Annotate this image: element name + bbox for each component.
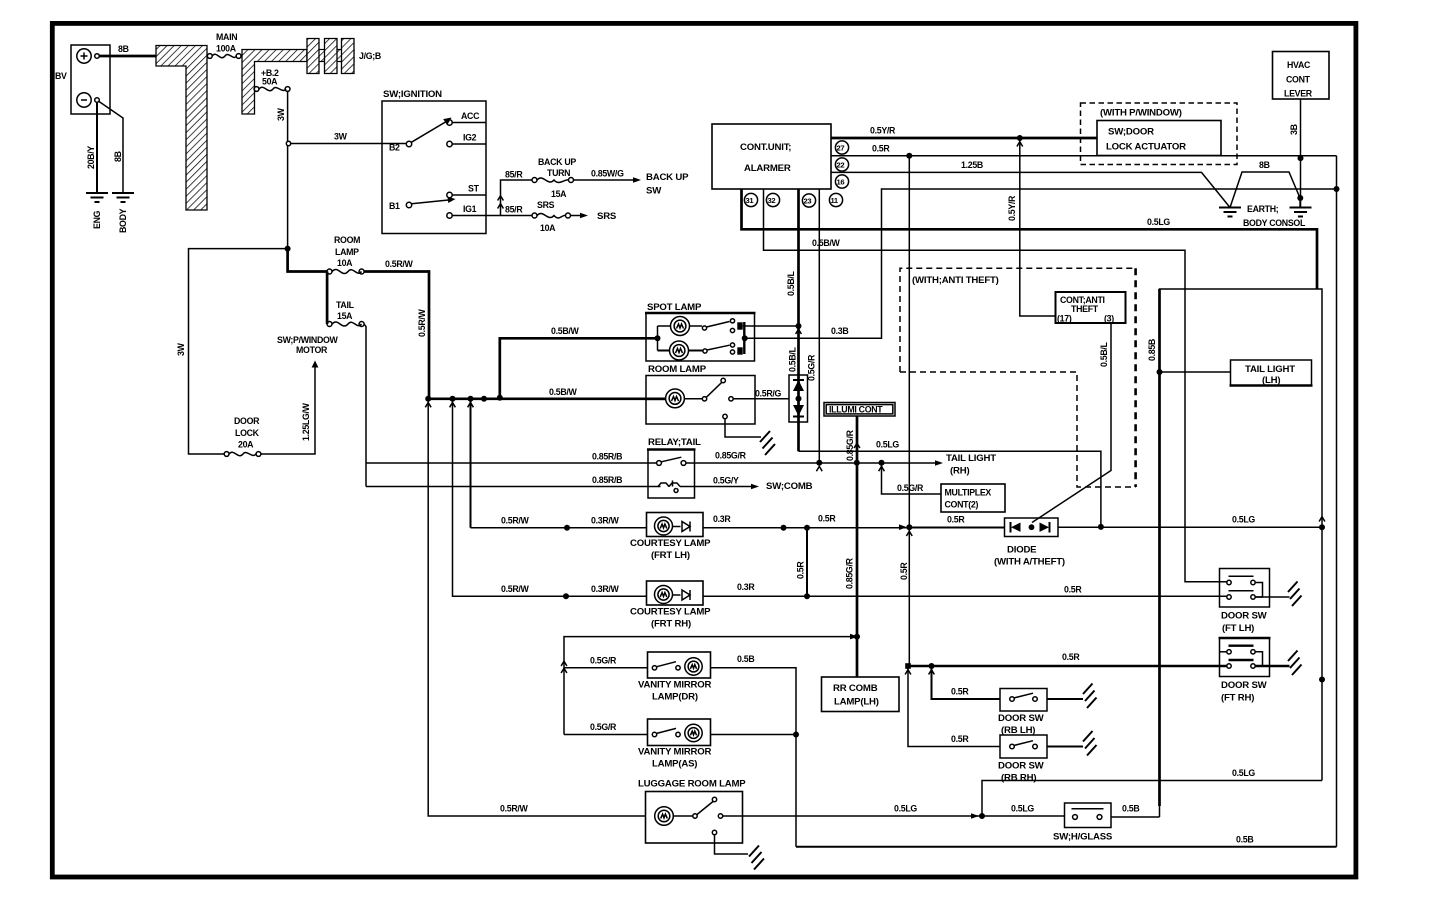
svg-text:0.5B/W: 0.5B/W [812,238,841,248]
svg-text:LAMP(LH): LAMP(LH) [834,697,879,708]
pin 27 [835,141,848,154]
svg-text:0.85G/R: 0.85G/R [845,557,855,589]
switch DOOR SW (FT LH) [1220,569,1290,635]
wire 0.5R link courtesy [806,528,808,597]
svg-text:BODY: BODY [118,208,128,233]
wire node 0.5B/W distribution [428,397,666,400]
svg-text:(WITH;ANTI THEFT): (WITH;ANTI THEFT) [912,275,999,286]
diode assembly DIODE WITH A/THEFT [994,518,1065,568]
node 0.5R / 909 branch [906,153,912,159]
svg-text:0.85R/B: 0.85R/B [592,452,622,462]
box SW;DOOR LOCK ACTUATOR [1097,121,1221,156]
svg-text:0.5LG: 0.5LG [876,440,899,450]
svg-text:LOCK: LOCK [235,428,260,438]
pin 23 [802,194,815,207]
svg-text:0.85W/G: 0.85W/G [591,169,624,179]
wire 0.5R thick to ft rh [908,665,1227,667]
ground earth2 body consol [1290,198,1312,217]
svg-text:0.5R/W: 0.5R/W [417,308,427,337]
svg-text:ACC: ACC [461,111,480,121]
pin 32 [766,193,779,206]
svg-text:3W: 3W [334,132,348,142]
svg-text:B2: B2 [389,143,400,153]
lamp spot 1 [658,325,671,327]
svg-text:0.5LG: 0.5LG [1147,217,1170,227]
node main 3W junction [285,246,291,252]
wire 3W drop from +B.2 to ignition [287,91,289,141]
pin 11 [829,193,842,206]
svg-text:0.5LG: 0.5LG [1232,768,1255,778]
lamp assembly ROOM LAMP [646,364,789,424]
svg-text:RR COMB: RR COMB [833,683,878,694]
svg-text:0.3R/W: 0.3R/W [591,516,620,526]
wire 0.5LG diode out [1058,526,1322,528]
svg-text:0.5LG: 0.5LG [894,804,917,814]
svg-text:3W: 3W [276,107,286,121]
wire 0.85G/R line B relay to tail light RH [694,462,936,464]
svg-text:LUGGAGE ROOM LAMP: LUGGAGE ROOM LAMP [638,779,746,790]
svg-text:TAIL LIGHT: TAIL LIGHT [1245,364,1295,375]
fusible link block MAIN [156,32,237,210]
svg-text:(FT LH): (FT LH) [1222,623,1254,634]
wire IG1 out [452,215,532,217]
svg-text:31: 31 [746,196,755,205]
switch DOOR SW (RB RH) [908,666,1083,784]
fuse BACK UP TURN 15A [532,157,576,199]
svg-text:ALARMER: ALARMER [744,163,791,174]
wire 0.85B vertical [1160,289,1323,817]
wire 0.5R down right side [1336,156,1338,847]
svg-text:0.5G/R: 0.5G/R [897,483,924,493]
svg-text:(WITH A/THEFT): (WITH A/THEFT) [994,557,1065,568]
lamp assembly LUGGAGE ROOM LAMP [428,399,746,843]
lamp assembly COURTESY LAMP FRT LH [471,399,712,561]
svg-text:COURTESY LAMP: COURTESY LAMP [630,538,711,549]
lamp spot 2 [658,350,670,352]
wire 3B from HVAC [1300,99,1302,198]
node riser frt rh [450,396,456,402]
svg-text:DIODE: DIODE [1007,545,1037,556]
svg-text:0.5R/W: 0.5R/W [385,259,414,269]
svg-text:0.5R/G: 0.5R/G [755,389,782,399]
svg-text:10A: 10A [540,223,556,233]
node tail light LH [1157,369,1163,375]
ground earth1 body consol [1219,208,1241,217]
wire 0.5LG top right drop [1316,229,1318,289]
svg-text:MULTIPLEX: MULTIPLEX [945,488,992,498]
svg-text:MOTOR: MOTOR [296,345,328,355]
svg-text:0.5R: 0.5R [947,515,965,525]
svg-text:0.5R: 0.5R [951,734,969,744]
svg-text:0.5B/W: 0.5B/W [549,387,578,397]
svg-text:DOOR SW: DOOR SW [998,713,1045,724]
wire 0.5G/Y to SW;COMB [694,486,752,488]
ground BODY [99,102,134,234]
dashed box WITH;ANTI THEFT [900,268,1136,487]
svg-text:0.5G/Y: 0.5G/Y [713,476,739,486]
svg-text:SW;H/GLASS: SW;H/GLASS [1053,832,1113,843]
node 0.3B end [1334,186,1340,192]
svg-text:BV: BV [55,71,67,81]
wire 0.5G/R to multiplex [882,463,942,494]
switch SW;H/GLASS [1053,803,1113,843]
svg-text:0.85G/R: 0.85G/R [715,451,747,461]
wire 0.5B vanity dr out [711,668,797,847]
wire 0.3R courtesy rh to door sw ft lh [703,595,1227,597]
svg-text:16: 16 [837,178,845,187]
svg-text:ENG: ENG [92,210,102,229]
svg-text:23: 23 [804,197,812,206]
battery BV [55,45,110,114]
box ILLUMI CONT [824,403,895,417]
ground ENG [86,103,108,230]
svg-text:VANITY MIRROR: VANITY MIRROR [638,680,712,691]
fuse TAIL 15A [327,300,364,327]
svg-text:0.5R/W: 0.5R/W [501,516,530,526]
wire 8B jumper earth1 to earth2 [1230,172,1300,208]
svg-text:BACK UP: BACK UP [646,172,689,183]
wire 0.5B h/glass to 0.85B [1111,816,1160,818]
svg-text:0.5R: 0.5R [1064,585,1082,595]
svg-text:DOOR SW: DOOR SW [998,761,1045,772]
node line B bus2 [816,460,822,466]
svg-text:15A: 15A [551,189,567,199]
svg-text:(FT RH): (FT RH) [1221,693,1254,704]
svg-text:0.3R: 0.3R [737,582,755,592]
svg-text:0.5R: 0.5R [872,144,890,154]
wire 0.3R courtesy lh out [703,527,1005,529]
svg-text:8B: 8B [1259,160,1270,170]
svg-text:CONT: CONT [1286,75,1311,85]
switch SW;IGNITION [382,89,486,234]
svg-text:20B/Y: 20B/Y [86,146,96,169]
wire 0.5B/W pin32 to door sw FT LH [764,189,1227,582]
node riser frt lh [468,396,474,402]
svg-text:15A: 15A [337,311,353,321]
svg-text:DOOR SW: DOOR SW [1221,680,1268,691]
wire 0.85W/G to back up sw [574,179,635,181]
wire 85/R branch up [501,180,533,216]
ground room lamp [760,431,775,455]
node 0.85B mystery [1319,677,1325,683]
lamp room [646,397,666,400]
svg-text:0.5R: 0.5R [951,687,969,697]
fusible link MAIN 100A [207,54,241,59]
fuse ROOM LAMP 10A [327,235,364,274]
svg-text:(RH): (RH) [950,466,969,477]
svg-text:IG2: IG2 [463,133,477,143]
fusible link block +B.2 [242,50,307,115]
wire luggage ground [715,835,749,854]
svg-text:0.5R/W: 0.5R/W [500,804,529,814]
svg-text:TAIL: TAIL [336,300,355,310]
pin 22 [835,158,848,171]
fusible link +B.2 50A [254,87,290,92]
svg-text:0.3R: 0.3R [713,514,731,524]
svg-text:ST: ST [468,184,480,194]
svg-text:0.5B/W: 0.5B/W [551,326,580,336]
wire 0.5R pin22 across top [831,155,1337,157]
svg-text:B1: B1 [389,201,400,211]
svg-text:0.5B: 0.5B [1122,804,1139,814]
wire 1.25LG/W to SW P/WINDOW MOTOR [261,335,339,454]
node riser luggage [425,396,431,402]
svg-text:0.5R: 0.5R [899,562,909,580]
wire vanity feed [564,637,851,735]
wire 0.5R to diode [911,526,1005,528]
svg-text:1.25B: 1.25B [961,160,983,170]
wire 8B battery to main link [100,55,157,58]
svg-text:BACK UP: BACK UP [538,157,576,167]
svg-text:10A: 10A [337,258,353,268]
wire 0.5R pin22 vertical [908,156,910,666]
lamp assembly COURTESY LAMP FRT RH [453,399,712,630]
svg-text:0.3B: 0.3B [831,326,848,336]
lamp assembly VANITY MIRROR LAMP(AS) [564,719,712,770]
svg-text:(FRT RH): (FRT RH) [651,619,691,630]
svg-text:ROOM LAMP: ROOM LAMP [648,364,707,375]
fuse DOOR LOCK 20A [224,416,261,456]
ground luggage [749,846,764,870]
svg-text:ROOM: ROOM [334,235,360,245]
wire 0.3B [745,189,1334,338]
svg-text:SW;DOOR: SW;DOOR [1108,127,1154,138]
svg-text:LAMP(DR): LAMP(DR) [652,692,698,703]
svg-text:DOOR: DOOR [234,416,260,426]
node bus1 spot [796,323,802,329]
svg-text:32: 32 [768,196,776,205]
svg-text:RELAY;TAIL: RELAY;TAIL [648,437,701,448]
svg-text:(17): (17) [1057,314,1072,324]
svg-text:SRS: SRS [597,211,617,222]
svg-text:SW;P/WINDOW: SW;P/WINDOW [277,335,339,345]
wire 0.5LG line A [799,451,1101,526]
lamp assembly VANITY MIRROR LAMP(DR) [564,652,712,703]
node HVAC junction [1298,155,1304,161]
box HVAC CONT LEVER [1273,52,1330,100]
svg-text:SW;COMB: SW;COMB [766,481,813,492]
svg-text:85/R: 85/R [505,205,523,215]
svg-text:27: 27 [837,144,845,153]
svg-text:(FRT LH): (FRT LH) [651,550,690,561]
bar spot switch common [743,322,745,354]
svg-text:LAMP: LAMP [335,247,359,257]
svg-text:SW;IGNITION: SW;IGNITION [383,89,442,100]
svg-text:LEVER: LEVER [1284,89,1313,99]
node line B illumi [854,460,860,466]
svg-text:0.5G/R: 0.5G/R [590,656,617,666]
svg-text:TAIL LIGHT: TAIL LIGHT [946,453,996,464]
svg-text:0.5B/L: 0.5B/L [1099,341,1109,367]
svg-text:0.5Y/R: 0.5Y/R [1007,195,1017,221]
node line B multiplex branch [879,460,885,466]
svg-text:50A: 50A [262,77,278,87]
wire to tail light LH [1160,371,1231,373]
ground door sw ft lh [1288,582,1302,607]
svg-text:(3): (3) [1104,314,1114,324]
box CONT;ANTI THEFT [1056,292,1126,324]
ground door sw rb rh [1083,731,1097,756]
switch DOOR SW (FT RH) [1219,638,1290,704]
svg-text:0.5R: 0.5R [818,514,836,524]
svg-text:11: 11 [831,196,839,205]
junction block J/G;B [307,39,381,74]
svg-text:0.5LG: 0.5LG [1232,515,1255,525]
svg-text:LAMP(AS): LAMP(AS) [652,759,697,770]
svg-text:CONT(2): CONT(2) [945,500,979,510]
wire vanity as out [711,734,797,736]
lamp assembly SPOT LAMP [645,302,756,361]
switch DOOR SW (RB LH) [932,666,1084,736]
svg-text:0.5Y/R: 0.5Y/R [870,126,896,136]
svg-text:8B: 8B [118,44,129,54]
switch spot 2 [689,350,703,352]
svg-text:0.5B/L: 0.5B/L [786,270,796,296]
svg-text:TURN: TURN [547,168,570,178]
svg-text:100A: 100A [216,44,237,54]
svg-text:1.25LG/W: 1.25LG/W [301,402,311,441]
svg-text:0.5LG: 0.5LG [1011,804,1034,814]
svg-text:LOCK ACTUATOR: LOCK ACTUATOR [1106,142,1186,153]
svg-text:IG1: IG1 [463,204,477,214]
svg-text:0.85G/R: 0.85G/R [845,429,855,461]
wire 0.5B/L bus1 pin23 [797,189,800,451]
svg-text:0.5R: 0.5R [1062,652,1080,662]
wire 0.5LG bus pin31 [742,189,1318,289]
relay RELAY;TAIL [647,437,701,498]
svg-text:(RB RH): (RB RH) [1001,773,1036,784]
svg-text:MAIN: MAIN [216,32,237,42]
svg-text:0.5B: 0.5B [737,654,754,664]
box CONT.UNIT;ALARMER [712,124,831,189]
wire 0.5Y/R branch to anti-theft [1020,138,1056,316]
svg-text:(LH): (LH) [1262,375,1280,386]
node 0.3B out [742,335,748,341]
svg-text:0.5B: 0.5B [1236,835,1253,845]
wire 0.5G/R bus2 pin11 [818,189,820,463]
svg-text:3B: 3B [1289,124,1299,135]
svg-text:20A: 20A [238,440,254,450]
svg-text:8B: 8B [113,151,123,162]
ground door sw rb lh [1083,684,1097,709]
svg-text:0.5G/R: 0.5G/R [590,722,617,732]
node extra [481,396,487,402]
svg-text:85/R: 85/R [505,170,523,180]
ground door sw ft rh [1288,651,1302,676]
diode stack box [789,375,808,422]
svg-text:0.85R/B: 0.85R/B [592,475,622,485]
node spot riser [497,395,503,401]
wire feed to room/tail fuses [288,249,328,324]
svg-text:VANITY MIRROR: VANITY MIRROR [638,747,712,758]
svg-text:3W: 3W [176,342,186,356]
svg-text:EARTH;: EARTH; [1247,204,1279,214]
svg-text:SRS: SRS [537,200,555,210]
svg-text:HVAC: HVAC [1287,60,1311,70]
fuse SRS 10A [532,200,571,233]
svg-text:0.3R/W: 0.3R/W [591,584,620,594]
wire 0.5B/W spot feed [500,338,658,399]
pin 31 [744,193,757,206]
box MULTIPLEX CONT(2) [941,484,1005,512]
svg-text:J/G;B: J/G;B [359,51,381,61]
dashed box WITH P/WINDOW [1081,103,1238,165]
pin 16 [835,175,848,188]
wire 0.85R/B tail fuse to relay [364,324,661,487]
wire 0.85G/R illumi to RR comb [856,416,859,677]
svg-text:BODY CONSOL: BODY CONSOL [1243,218,1306,228]
svg-text:CONT.UNIT;: CONT.UNIT; [740,142,791,153]
svg-text:ILLUMI CONT: ILLUMI CONT [829,405,883,415]
svg-text:SPOT LAMP: SPOT LAMP [647,302,702,313]
svg-text:(WITH P/WINDOW): (WITH P/WINDOW) [1100,108,1182,119]
wire 0.5B/L anti theft to diode [1032,323,1111,523]
switch spot 1 [690,325,703,327]
svg-text:THEFT: THEFT [1071,304,1099,314]
svg-text:0.5R: 0.5R [796,561,806,579]
switch room [685,398,703,400]
svg-text:DOOR SW: DOOR SW [1221,611,1268,622]
wire spot top to bus1 [743,325,799,327]
node on 0.5Y/R [1017,135,1023,141]
wire 0.5B bottom [796,846,1337,848]
box RR COMB LAMP(LH) [822,677,900,712]
wire 3W loop to door lock fuse [189,249,288,454]
wire to SRS [571,215,582,217]
svg-text:0.5B/L: 0.5B/L [788,346,798,372]
node spot feed [655,335,661,341]
svg-text:SW: SW [646,186,662,197]
wire 1.25B pin16 to earth [831,172,1230,207]
wire room lamp ground [725,419,761,437]
wire 0.5LG bottom [982,781,1322,817]
wire 0.5LG luggage to h/glass [743,815,1065,817]
wire 0.5R/W from room fuse [364,272,429,399]
node 3B/8B junction [1297,195,1303,201]
svg-text:22: 22 [837,161,845,170]
svg-text:0.85B: 0.85B [1147,339,1157,361]
svg-text:COURTESY LAMP: COURTESY LAMP [630,607,711,618]
wire 0.5Y/R thick to door lock actuator [831,137,1097,140]
svg-text:0.5R/W: 0.5R/W [501,584,530,594]
box TAIL LIGHT (LH) [1230,360,1313,386]
